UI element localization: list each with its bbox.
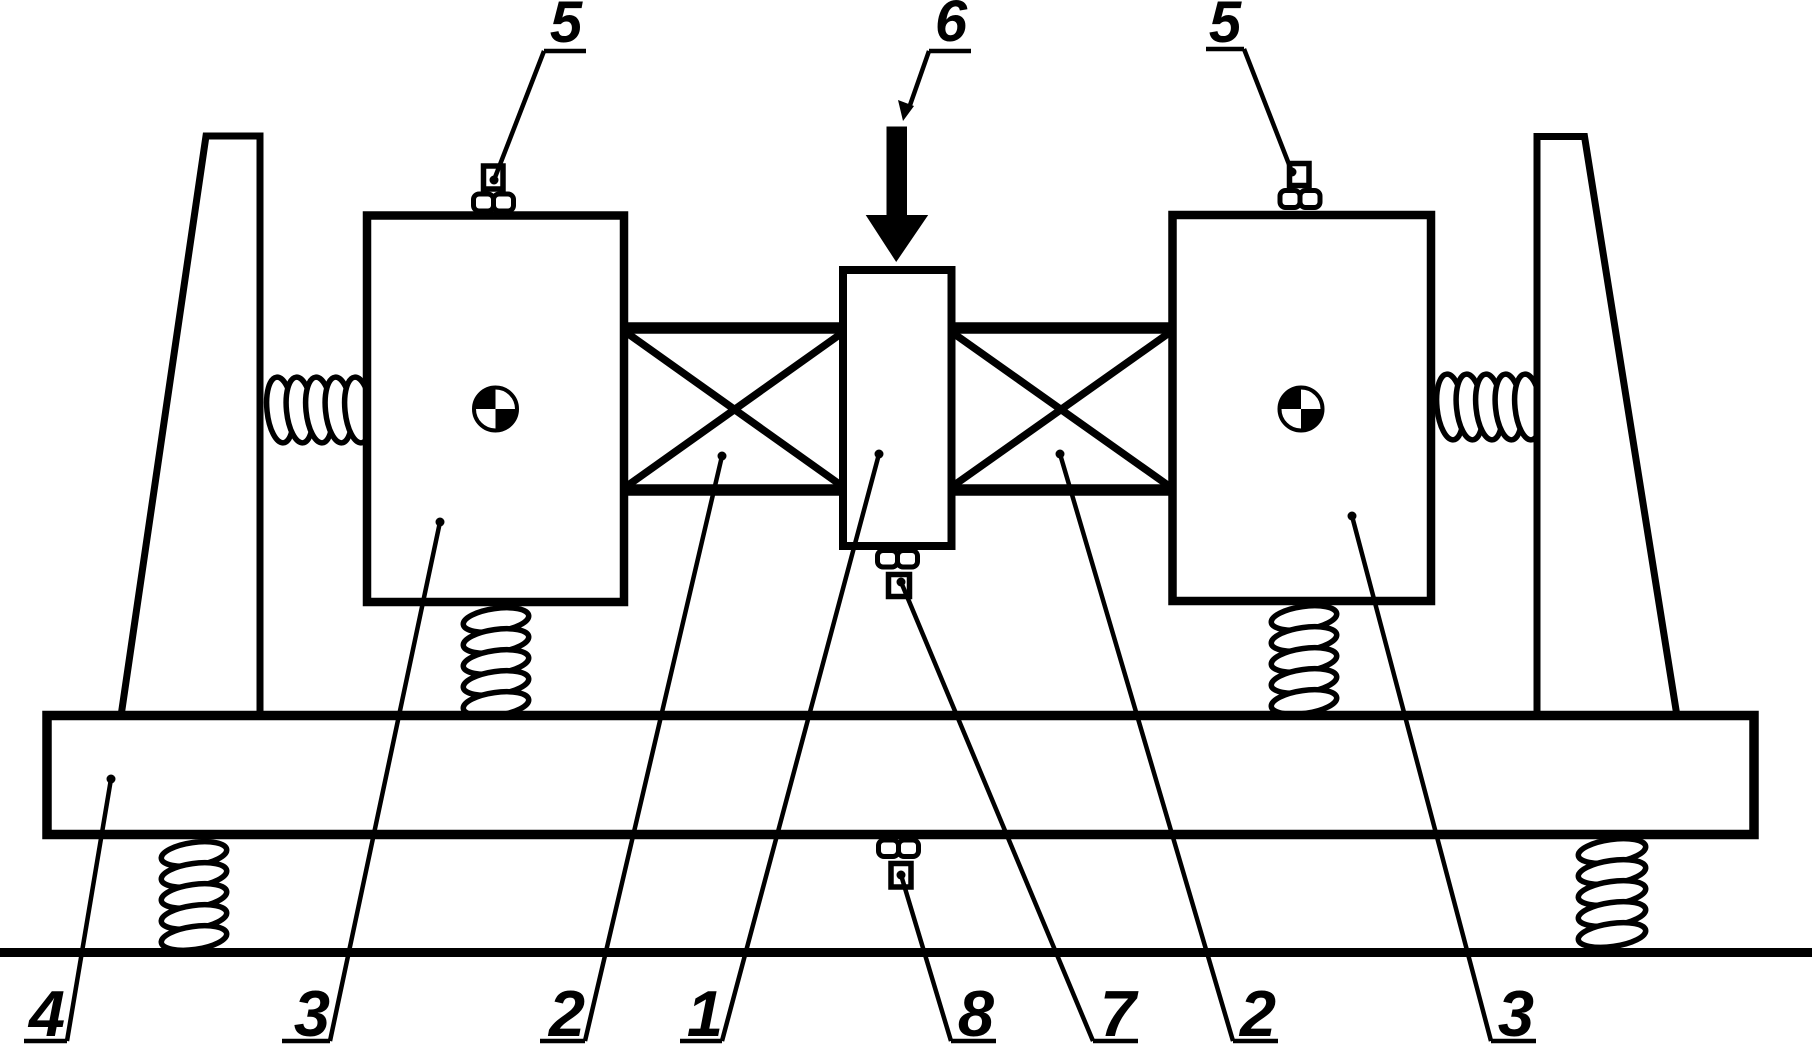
- label 4 leader: [24, 779, 111, 1041]
- spring under base right: [1577, 835, 1648, 951]
- label 6 leader: [909, 51, 971, 108]
- sensor 5 right (square + nut) on right mass: [1280, 164, 1320, 208]
- base plate 4: [47, 716, 1754, 835]
- label 5 right leader: [1206, 49, 1292, 172]
- X-brace left bottom beam: [620, 484, 850, 496]
- svg-text:3: 3: [1498, 977, 1534, 1050]
- X-brace left top beam: [620, 322, 850, 334]
- svg-text:5: 5: [550, 0, 583, 55]
- X-brace left diagonal b: [627, 333, 842, 486]
- svg-text:1: 1: [687, 977, 723, 1050]
- svg-text:2: 2: [1238, 977, 1276, 1050]
- spring under base left: [160, 838, 229, 954]
- X-brace right bottom beam: [945, 484, 1176, 496]
- label 6 leader arrowhead: [898, 100, 914, 121]
- label 2 right leader: [1060, 454, 1278, 1041]
- CG symbol left mass: [474, 388, 517, 431]
- left upright (trapezoid support): [121, 136, 260, 716]
- right mass 3: [1173, 215, 1432, 601]
- X-brace right diagonal b: [953, 333, 1169, 486]
- spring left horizontal: [264, 376, 375, 444]
- svg-text:5: 5: [1209, 0, 1242, 55]
- label 7 leader: [901, 582, 1138, 1041]
- X-brace right top beam: [945, 322, 1176, 334]
- CG symbol right mass: [1280, 388, 1323, 431]
- svg-text:7: 7: [1100, 977, 1139, 1050]
- spring under right mass: [1270, 602, 1339, 718]
- sensor 5 left (square + nut) on left mass: [474, 166, 514, 211]
- right upright (trapezoid support): [1537, 137, 1677, 717]
- ground line: [0, 948, 1812, 957]
- label 8 leader: [901, 875, 996, 1041]
- svg-text:8: 8: [958, 977, 995, 1050]
- X-brace left diagonal a: [627, 333, 842, 486]
- left mass 3: [367, 216, 624, 603]
- label 3 right leader: [1352, 516, 1536, 1041]
- svg-text:2: 2: [547, 977, 585, 1050]
- spring right horizontal: [1434, 373, 1545, 441]
- svg-text:4: 4: [27, 977, 65, 1050]
- label 1 leader: [680, 454, 879, 1041]
- X-brace right diagonal a: [953, 333, 1169, 486]
- sensor 7 under central block (nut + square): [878, 551, 918, 597]
- label 3 left leader: [282, 522, 440, 1041]
- force arrow 6: [866, 127, 929, 263]
- spring under left mass: [462, 604, 531, 720]
- label 2 left leader: [540, 456, 722, 1041]
- central block 1: [843, 270, 952, 546]
- svg-text:6: 6: [935, 0, 968, 54]
- svg-text:3: 3: [294, 977, 330, 1050]
- label 5 left leader: [494, 51, 586, 180]
- sensor 8 under base plate (nut + square): [879, 840, 919, 887]
